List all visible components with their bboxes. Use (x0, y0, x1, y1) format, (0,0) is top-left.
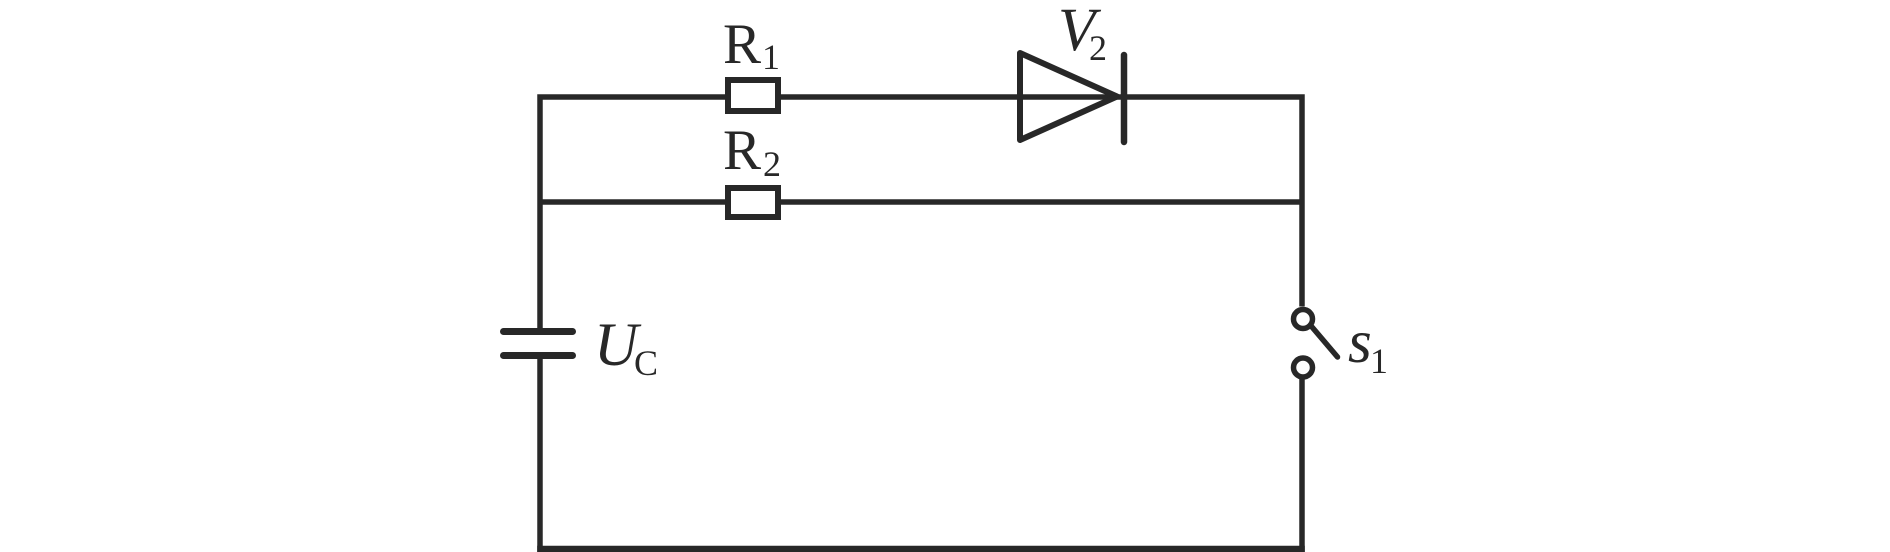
wire: right vertical (bottom part) (1299, 379, 1305, 552)
svg-text:C: C (634, 343, 658, 383)
svg-text:R: R (723, 13, 761, 76)
resistor R1 (728, 80, 778, 111)
wire: left vertical (bottom part) (537, 356, 543, 552)
wire: R2 branch left segment (540, 199, 725, 205)
svg-text:R: R (723, 119, 761, 182)
capacitor UC: bottom plate (504, 352, 573, 359)
switch S1: blade (1312, 327, 1338, 357)
diode V2: triangle (1020, 53, 1117, 140)
wire: R2 branch right segment joining right vertical (781, 199, 1305, 205)
svg-text:1: 1 (762, 37, 780, 77)
svg-text:2: 2 (763, 144, 781, 184)
diode V2: cathode bar (1121, 55, 1128, 142)
wire: bottom wire (537, 546, 1305, 552)
capacitor UC: top plate (504, 328, 573, 335)
svg-text:1: 1 (1370, 341, 1388, 381)
switch S1: lower contact circle (1294, 358, 1313, 377)
wire: left vertical (top part) and top wire left segment to R1 (540, 97, 725, 331)
switch S1: upper contact circle (1294, 310, 1313, 329)
resistor R2 (728, 188, 778, 217)
svg-text:s: s (1348, 309, 1372, 376)
svg-text:2: 2 (1089, 28, 1107, 68)
wire: top wire right segment through diode and right vertical down to switch (781, 97, 1302, 307)
